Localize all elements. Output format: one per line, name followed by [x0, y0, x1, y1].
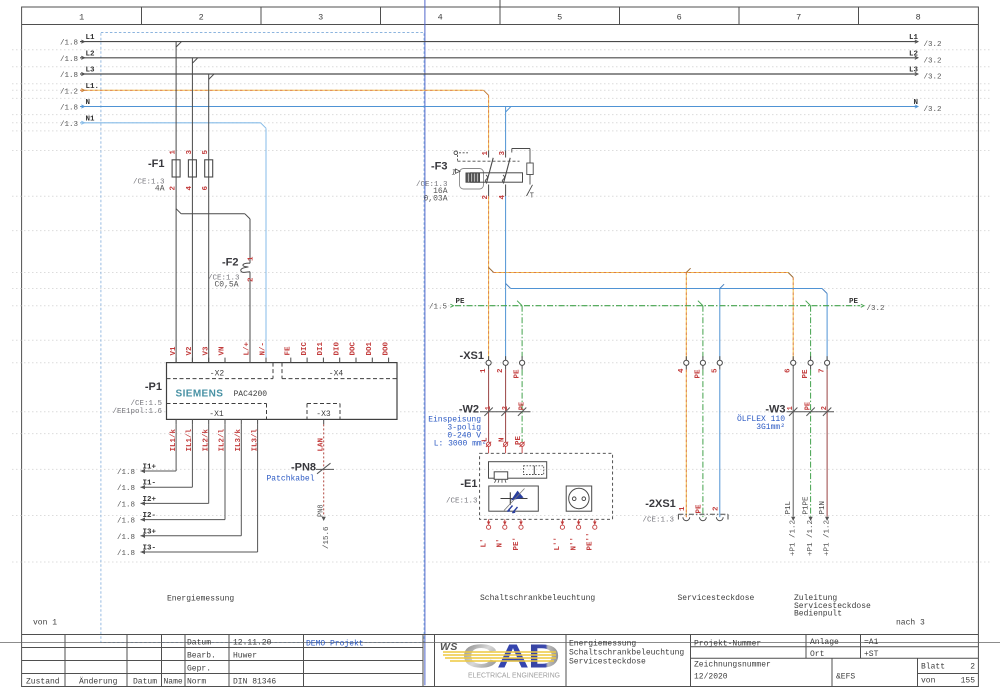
corner N to XS1 7 [822, 289, 827, 294]
terminal XS1 PE at x=522.1 [521, 356, 523, 360]
blue section divider [424, 0, 426, 685]
svg-text:12/2020: 12/2020 [694, 672, 728, 681]
svg-text:Gepr.: Gepr. [187, 665, 211, 674]
terminal block X4 [281, 363, 283, 379]
svg-text:-F3: -F3 [431, 161, 448, 173]
wire PE bus [455, 305, 860, 307]
svg-text:C0,5A: C0,5A [214, 281, 238, 290]
svg-text:155: 155 [961, 677, 976, 686]
svg-text:PE'': PE'' [587, 532, 595, 550]
node P1L arrow [791, 517, 795, 521]
svg-text:+P1 /1.2: +P1 /1.2 [789, 520, 797, 556]
svg-text:/1.8: /1.8 [117, 534, 135, 542]
svg-text:I3-: I3- [143, 545, 157, 553]
title block [22, 635, 978, 687]
svg-text:/EE1pol:1.6: /EE1pol:1.6 [112, 408, 162, 416]
svg-text:/1.8: /1.8 [60, 56, 78, 64]
label E1 bottom wire names [480, 532, 594, 550]
label W2 core numbers [485, 402, 527, 410]
svg-text:1: 1 [787, 406, 795, 410]
fold line [0, 642, 1000, 644]
blue selection box [101, 33, 424, 643]
svg-text:=A1: =A1 [864, 638, 879, 647]
svg-text:5: 5 [202, 150, 210, 155]
svg-text:Datum: Datum [187, 639, 211, 648]
terminal XS1 PE at x=810.6 [810, 356, 812, 360]
svg-text:L1: L1 [86, 34, 96, 42]
svg-text:V3: V3 [202, 346, 210, 356]
svg-text:PE: PE [805, 402, 813, 410]
svg-text:0,03A: 0,03A [423, 195, 447, 204]
svg-text:Zeichnungsnummer: Zeichnungsnummer [694, 661, 771, 670]
wire XS1 PE to 2XS1 PE [702, 370, 704, 518]
title block texts [26, 639, 276, 687]
terminal XS1 2 at x=505.6 [505, 356, 507, 360]
svg-text:7: 7 [796, 13, 801, 23]
wire I1- [191, 424, 193, 487]
svg-text:DI1: DI1 [317, 341, 325, 355]
svg-text:Anlage: Anlage [810, 638, 839, 647]
svg-text:/3.2: /3.2 [867, 305, 885, 313]
junction L1. to XS1 4 [686, 268, 690, 272]
svg-text:1: 1 [170, 150, 178, 155]
svg-text:FE: FE [285, 346, 293, 356]
wire L1. distribution [494, 272, 789, 274]
svg-text:+ST: +ST [864, 650, 879, 659]
svg-text:8: 8 [916, 13, 921, 23]
svg-text:/1.2: /1.2 [60, 88, 78, 96]
svg-text:-X3: -X3 [316, 410, 331, 419]
svg-text:PE': PE' [513, 537, 521, 551]
svg-text:2: 2 [248, 277, 256, 282]
junction PE to XS1 PE1 [517, 301, 522, 306]
wire XS1 1 to E1 L [488, 370, 490, 443]
svg-text:PE: PE [456, 298, 466, 306]
svg-text:von: von [921, 677, 936, 686]
wire PE to XS1 PE2 [702, 306, 704, 361]
svg-text:/CE:1.3: /CE:1.3 [642, 517, 674, 525]
svg-text:V1: V1 [170, 346, 178, 356]
svg-text:L3: L3 [86, 67, 96, 75]
wire L1. bus [80, 89, 484, 91]
terminals E1 top [486, 442, 525, 454]
wire L1. to F3 pin 1 [484, 90, 489, 95]
svg-text:DO1: DO1 [366, 341, 374, 355]
wire F3 pin2 down [488, 196, 490, 360]
svg-text:1: 1 [248, 256, 256, 261]
svg-text:Datum: Datum [133, 678, 157, 687]
socket strip 2XS1 [678, 514, 728, 520]
svg-text:2: 2 [502, 406, 510, 410]
svg-text:Servicesteckdose: Servicesteckdose [678, 594, 755, 603]
breaker F2 [241, 219, 250, 363]
socket outlet symbol [566, 486, 592, 511]
svg-text:-X4: -X4 [329, 370, 344, 379]
svg-text:4: 4 [678, 368, 686, 373]
terminal XS1 1 at x=488.6 [488, 356, 490, 360]
svg-text:-F1: -F1 [148, 158, 165, 170]
wire XS1 6 to P1L [792, 370, 794, 517]
terminal block X2 [167, 378, 274, 380]
svg-text:PE: PE [802, 369, 810, 379]
label W2 description [428, 416, 486, 449]
wire L1 bus [80, 41, 917, 43]
wire I1+ [175, 424, 177, 471]
svg-text:PE: PE [849, 298, 859, 306]
node I1+ [141, 469, 146, 473]
label W2 wire names [482, 435, 523, 445]
svg-text:L'': L'' [554, 537, 562, 551]
svg-text:+P1 /1.2: +P1 /1.2 [807, 520, 815, 556]
svg-text:N1: N1 [86, 115, 96, 123]
wire to XS1 terminal 4 [685, 273, 687, 361]
svg-text:DIC: DIC [301, 341, 309, 355]
svg-text:4A: 4A [155, 185, 165, 194]
wire I3+ [240, 424, 242, 535]
wire N1 bus [80, 122, 261, 124]
svg-text:Projekt-Nummer: Projekt-Nummer [694, 640, 761, 649]
svg-text:PAC4200: PAC4200 [234, 390, 268, 399]
label 2XS1 pin numbers [679, 504, 721, 514]
wire PE to XS1 PE1 [521, 306, 523, 361]
svg-text:4: 4 [438, 13, 443, 23]
svg-text:12.11.20: 12.11.20 [233, 639, 272, 648]
svg-text:DO0: DO0 [382, 341, 390, 355]
svg-text:2: 2 [712, 506, 720, 511]
svg-text:-W2: -W2 [459, 404, 479, 416]
svg-text:Name: Name [164, 678, 183, 687]
svg-text:Norm: Norm [187, 678, 206, 687]
label W3 description [737, 415, 785, 432]
label F3 pin numbers [482, 151, 507, 200]
svg-text:P1PE: P1PE [802, 496, 810, 515]
corner L1. to XS1 6 [788, 273, 793, 278]
wire XS1 7 to P1N [826, 370, 828, 517]
svg-text:2: 2 [970, 663, 975, 672]
svg-text:+P1 /1.2: +P1 /1.2 [823, 520, 831, 556]
svg-text:2: 2 [497, 368, 505, 373]
svg-text:DIN 81346: DIN 81346 [233, 678, 276, 687]
grid lines [12, 50, 990, 562]
svg-text:L': L' [480, 538, 488, 547]
svg-text:/CE:1.3: /CE:1.3 [446, 498, 478, 506]
svg-text:-X1: -X1 [209, 410, 224, 419]
svg-text:-X2: -X2 [210, 370, 225, 379]
wire N distribution [511, 288, 822, 290]
wire branch to F2 [176, 209, 181, 214]
svg-text:/1.5: /1.5 [429, 304, 448, 312]
svg-text:-P1: -P1 [145, 381, 162, 393]
junction L1. branch right [489, 268, 494, 273]
svg-text:-F2: -F2 [222, 257, 239, 269]
wire XS1 4 to 2XS1 1 [685, 370, 687, 518]
svg-text:-E1: -E1 [460, 478, 477, 490]
svg-text:L1.: L1. [86, 83, 100, 91]
svg-text:Zustand: Zustand [26, 678, 60, 687]
wire XS1 2 to E1 N [505, 370, 507, 443]
wire F1 pin2 to P1 V1 [175, 177, 177, 363]
svg-text:Bedienpult: Bedienpult [794, 610, 842, 619]
svg-text:3: 3 [186, 150, 194, 155]
wire N to F3 pin 3 [505, 107, 507, 151]
node I3- [141, 550, 146, 554]
svg-text:-W3: -W3 [765, 404, 785, 416]
svg-text:/1.8: /1.8 [60, 72, 78, 80]
wire I2- [224, 424, 226, 519]
svg-text:P1N: P1N [819, 501, 827, 515]
svg-text:7: 7 [819, 368, 827, 373]
wire L1. drop [488, 95, 490, 150]
svg-text:von 1: von 1 [33, 619, 57, 628]
terminal XS1 6 at x=793.2 [792, 356, 794, 360]
svg-text:3G1mm²: 3G1mm² [756, 423, 785, 432]
node I3+ [141, 534, 146, 538]
svg-text:I1-: I1- [143, 480, 157, 488]
svg-text:/1.8: /1.8 [117, 485, 135, 493]
svg-text:PE: PE [515, 435, 523, 445]
svg-text:/1.8: /1.8 [117, 550, 135, 558]
svg-text:L/+: L/+ [244, 341, 252, 355]
svg-text:/3.2: /3.2 [924, 41, 942, 49]
svg-text:DOC: DOC [350, 341, 358, 355]
lamp E1 enclosure [480, 453, 613, 519]
svg-text:6: 6 [785, 368, 793, 373]
svg-text:5: 5 [711, 368, 719, 373]
wire to XS1 terminal 7 [826, 294, 828, 361]
svg-text:L2: L2 [86, 50, 96, 58]
P1 top pins [170, 341, 390, 362]
label W3 wire names [785, 496, 827, 515]
terminal XS1 7 at x=827.1 [826, 356, 828, 360]
terminal XS1 5 at x=719.8 [719, 356, 721, 360]
lamp fixture body [489, 462, 547, 483]
svg-text:Servicesteckdose: Servicesteckdose [569, 658, 646, 667]
node P1PE arrow [809, 517, 813, 521]
svg-text:/1.8: /1.8 [117, 518, 135, 526]
svg-text:L: L [482, 437, 490, 442]
svg-text:/3.2: /3.2 [924, 57, 942, 65]
svg-text:/1.8: /1.8 [117, 469, 135, 477]
wire N bus [80, 106, 917, 108]
wire L2 to F1 pin 3 [191, 58, 193, 160]
svg-text:/CE:1.5: /CE:1.5 [130, 400, 162, 408]
svg-text:A: A [497, 638, 529, 675]
svg-text:PE: PE [695, 504, 703, 514]
wire I2+ [208, 424, 210, 503]
cable PN8 [316, 463, 334, 474]
svg-text:6: 6 [677, 13, 682, 23]
svg-text:/1.8: /1.8 [60, 105, 78, 113]
svg-text:N'': N'' [570, 537, 578, 551]
svg-text:Energiemessung: Energiemessung [167, 595, 234, 604]
svg-text:PN8: PN8 [317, 504, 325, 517]
svg-text:IL1/l: IL1/l [186, 428, 194, 451]
cable W2 [480, 408, 531, 416]
svg-text:/15.6: /15.6 [323, 526, 331, 549]
svg-text:I2+: I2+ [143, 496, 157, 504]
svg-text:I2-: I2- [143, 512, 157, 520]
svg-text:SIEMENS: SIEMENS [176, 389, 224, 400]
svg-text:C: C [462, 638, 498, 675]
junction PE to XS1 PE3 [806, 301, 811, 306]
fuse F1 [172, 160, 213, 177]
svg-text:N: N [86, 99, 91, 107]
svg-text:N/-: N/- [260, 342, 268, 356]
svg-text:5: 5 [557, 13, 562, 23]
svg-text:WS: WS [440, 641, 458, 653]
svg-text:L: 3000 mm²: L: 3000 mm² [434, 440, 487, 449]
junction N to XS1 5 [720, 284, 724, 288]
terminals E1 bottom [487, 519, 597, 529]
wire N1 to P1 N/- [261, 123, 266, 128]
terminal XS1 4 at x=686.3 [685, 356, 687, 360]
label F1 pin numbers [170, 150, 211, 191]
svg-text:ELECTRICAL ENGINEERING: ELECTRICAL ENGINEERING [468, 673, 560, 680]
caption Zuleitung Servicesteckdose Bedienpult [794, 594, 871, 619]
svg-text:2: 2 [199, 13, 204, 23]
junction PE to XS1 PE2 [698, 301, 703, 306]
svg-text:/3.2: /3.2 [924, 106, 942, 114]
svg-text:-XS1: -XS1 [460, 350, 484, 362]
logo WSCAD [440, 638, 560, 680]
lamp E1 LED box [489, 486, 539, 511]
wire to XS1 terminal 6 [792, 278, 794, 361]
node I2+ [141, 501, 146, 505]
svg-text:VN: VN [219, 346, 227, 355]
svg-text:PE: PE [694, 369, 702, 379]
svg-text:1: 1 [480, 368, 488, 373]
wire XS1 PE to E1 PE [521, 370, 523, 443]
svg-text:I1+: I1+ [143, 464, 157, 472]
node P1N arrow [825, 517, 829, 521]
svg-text:T: T [530, 193, 534, 201]
wire F3 pin4 down [505, 196, 507, 360]
svg-text:DEMO Projekt: DEMO Projekt [306, 640, 364, 649]
svg-text:PE: PE [514, 369, 522, 379]
svg-text:3: 3 [499, 151, 507, 156]
svg-text:Patchkabel: Patchkabel [266, 475, 314, 484]
wire XS1 5 to 2XS1 2 [719, 370, 721, 518]
wire L1 to F1 pin 1 [175, 42, 177, 160]
node PN8 arrow [322, 517, 326, 521]
label W3 cross-references [789, 520, 831, 556]
svg-text:I3+: I3+ [143, 528, 157, 536]
junction N branch right [506, 284, 511, 289]
terminal block X1 [167, 403, 267, 405]
svg-text:Ort: Ort [810, 650, 824, 659]
svg-text:V2: V2 [186, 346, 194, 356]
svg-text:Huwer: Huwer [233, 652, 257, 661]
label F2 pin numbers [248, 256, 256, 282]
wire XS1 PE to P1PE [810, 370, 812, 517]
svg-text:D: D [528, 638, 560, 675]
svg-text:1: 1 [485, 406, 493, 410]
svg-text:nach 3: nach 3 [896, 619, 925, 628]
P1 bottom pins [170, 419, 326, 451]
title block project texts [569, 638, 975, 686]
node I2- [141, 517, 146, 521]
wire F1 pin6 to P1 V3 [208, 177, 210, 363]
svg-text:Energiemessung: Energiemessung [569, 640, 636, 649]
wire L2 bus [80, 57, 917, 59]
svg-text:Blatt: Blatt [921, 663, 945, 672]
svg-text:Änderung: Änderung [79, 678, 118, 687]
svg-text:3: 3 [318, 13, 323, 23]
svg-text:PE: PE [519, 402, 527, 410]
RCBO F3 [452, 149, 535, 201]
cable W3 [787, 408, 835, 416]
LED symbol [501, 489, 528, 514]
label W3 core numbers [787, 402, 829, 410]
terminal XS1 PE at x=702.9 [702, 356, 704, 360]
wire to XS1 terminal 5 [719, 289, 721, 361]
wire PE to XS1 PE3 [810, 306, 812, 361]
svg-text:2: 2 [821, 406, 829, 410]
svg-text:1: 1 [679, 506, 687, 511]
svg-text:-2XS1: -2XS1 [645, 498, 676, 510]
svg-text:&EFS: &EFS [836, 673, 855, 682]
svg-text:Schaltschrankbeleuchtung: Schaltschrankbeleuchtung [569, 649, 684, 658]
terminal block X3 [307, 403, 340, 405]
svg-text:/1.8: /1.8 [117, 501, 135, 509]
svg-text:N: N [499, 437, 507, 442]
svg-text:/3.2: /3.2 [924, 74, 942, 82]
svg-text:1: 1 [79, 13, 84, 23]
wire L3 bus [80, 73, 917, 75]
svg-text:Schaltschrankbeleuchtung: Schaltschrankbeleuchtung [480, 594, 595, 603]
svg-text:/1.8: /1.8 [60, 40, 78, 48]
svg-text:/1.3: /1.3 [60, 121, 79, 129]
node I1- [141, 485, 146, 489]
wire F1 pin4 to P1 V2 [191, 177, 193, 363]
svg-text:1: 1 [482, 151, 490, 156]
svg-text:N': N' [497, 538, 505, 547]
power meter P1 body [167, 363, 398, 420]
svg-text:Bearb.: Bearb. [187, 652, 216, 661]
wire LAN to PN8 [323, 424, 325, 516]
svg-text:P1L: P1L [785, 500, 793, 514]
svg-text:-PN8: -PN8 [291, 462, 316, 474]
wire I3- [257, 424, 259, 552]
svg-text:DI0: DI0 [333, 341, 341, 355]
wire L3 to F1 pin 5 [208, 74, 210, 160]
